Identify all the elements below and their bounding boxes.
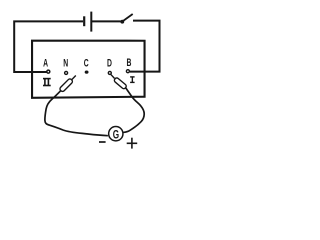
svg-text:N: N bbox=[63, 57, 68, 69]
svg-text:G: G bbox=[113, 129, 119, 142]
svg-text:B: B bbox=[127, 56, 132, 68]
svg-text:A: A bbox=[43, 57, 48, 69]
svg-text:C: C bbox=[84, 57, 89, 69]
svg-text:D: D bbox=[107, 57, 112, 69]
